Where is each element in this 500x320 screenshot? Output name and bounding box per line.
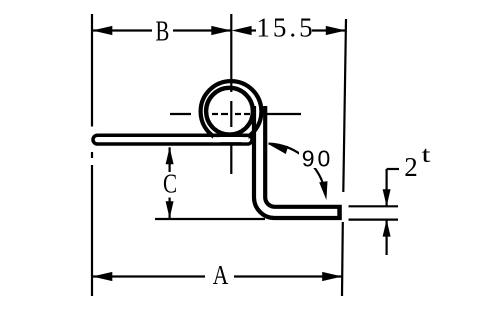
svg-text:t: t bbox=[422, 142, 431, 167]
svg-text:2: 2 bbox=[404, 152, 418, 182]
svg-text:C: C bbox=[163, 169, 177, 199]
svg-text:A: A bbox=[213, 261, 229, 291]
svg-text:B: B bbox=[155, 17, 169, 48]
svg-text:15.5: 15.5 bbox=[256, 13, 315, 43]
svg-text:90: 90 bbox=[302, 146, 334, 172]
